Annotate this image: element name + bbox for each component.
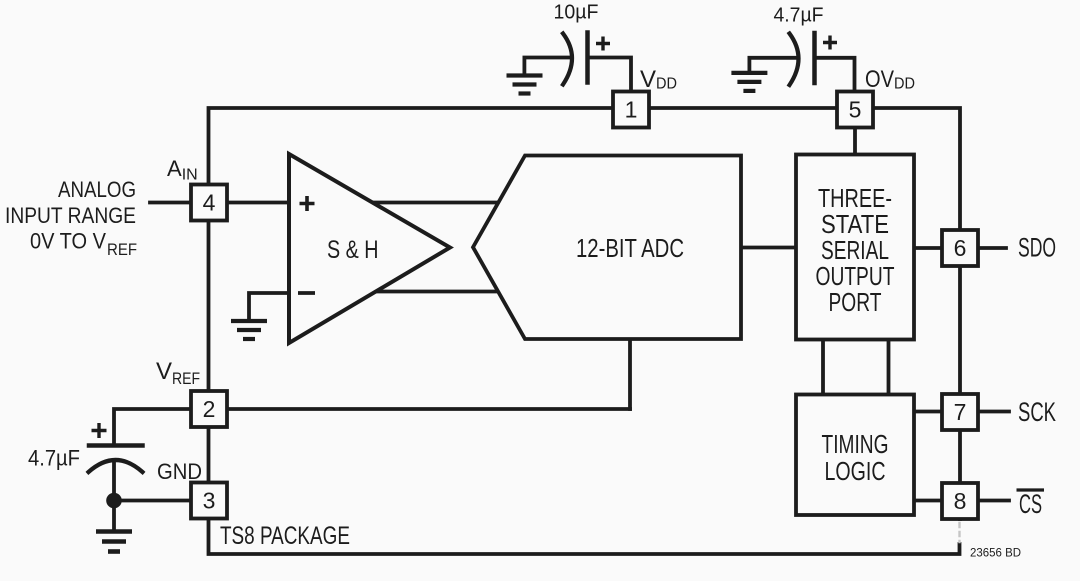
- svg-text:TS8 PACKAGE: TS8 PACKAGE: [220, 522, 350, 550]
- svg-text:SCK: SCK: [1018, 397, 1056, 427]
- pin 1 (VDD): [613, 92, 649, 128]
- svg-text:S & H: S & H: [327, 236, 379, 264]
- pin 5 (OVDD): [837, 92, 873, 128]
- block 12-BIT ADC: [473, 156, 741, 340]
- svg-text:OVDD: OVDD: [865, 66, 915, 93]
- svg-text:23656 BD: 23656 BD: [970, 546, 1021, 560]
- wire right rail (pin6 to pin7 to pin8): [958, 248, 962, 519]
- wire pin8 to CS: [978, 499, 1009, 503]
- capacitor C3 4.7uF curved plate: [89, 460, 143, 472]
- capacitor C2 4.7uF ground stub: [749, 58, 796, 70]
- wire S&H to ADC upper: [372, 201, 500, 205]
- wire C1 to pin1: [588, 58, 632, 92]
- label TIMING LOGIC: [822, 429, 889, 486]
- op-amp U1 S&H: [289, 154, 450, 343]
- wire three-state to pin6: [914, 246, 942, 250]
- plus sign C3: [92, 423, 107, 438]
- svg-text:5: 5: [849, 97, 862, 123]
- plus sign C2: [823, 36, 837, 50]
- wire pin8 to bottom rail (faded remnant): [958, 523, 960, 542]
- pin 2 (VREF): [191, 391, 227, 427]
- wire three-state to timing left: [821, 340, 825, 395]
- pin 7 (SCK): [942, 394, 978, 430]
- wire pin4 to S&H + input: [227, 201, 289, 205]
- wire analog input to pin4: [150, 201, 191, 205]
- svg-text:8: 8: [954, 488, 967, 514]
- wire C3 to junction: [112, 461, 116, 529]
- wire bottom rail (pin3 down, across, corner hook): [209, 502, 960, 554]
- svg-text:4: 4: [203, 190, 216, 216]
- label CS with overline: [1017, 489, 1045, 519]
- capacitor C1 10uF curved plate: [563, 34, 572, 85]
- svg-text:4.7µF: 4.7µF: [774, 5, 824, 27]
- ground GND3 (S&H - input): [231, 321, 267, 339]
- wire pin6 to SDO: [978, 246, 1006, 250]
- label THREE-STATE SERIAL OUTPUT PORT: [816, 183, 895, 317]
- svg-text:SDO: SDO: [1018, 233, 1056, 263]
- wire timing to pin8: [914, 499, 942, 503]
- pin 3 (GND): [191, 483, 227, 519]
- wire pin2 to C3: [114, 409, 191, 444]
- junction node (C3 / GND): [106, 493, 122, 509]
- svg-text:PORT: PORT: [829, 287, 882, 317]
- svg-text:6: 6: [954, 235, 967, 261]
- block timing logic: [796, 395, 914, 516]
- svg-text:12-BIT ADC: 12-BIT ADC: [576, 233, 684, 263]
- svg-text:AIN: AIN: [167, 156, 198, 184]
- svg-text:0V TO V: 0V TO V: [30, 229, 106, 254]
- wire pin2 VREF rail: [227, 407, 630, 411]
- svg-text:VDD: VDD: [640, 66, 677, 93]
- wire S&H - input to ground: [249, 293, 289, 318]
- capacitor C1 10uF straight plate: [585, 33, 590, 83]
- pin 4 (AIN): [191, 185, 227, 221]
- capacitor C2 4.7uF straight plate: [812, 33, 817, 83]
- label analog input range: [5, 177, 137, 259]
- svg-text:2: 2: [203, 396, 216, 422]
- pin 8 (CS): [942, 483, 978, 519]
- wire ADC output to three-state port: [741, 246, 796, 250]
- wire top bus (pin4 riser, VDD rail, right riser to pin6): [209, 108, 961, 248]
- svg-text:LOGIC: LOGIC: [825, 456, 886, 486]
- ground GND2 (C2): [731, 73, 767, 91]
- svg-text:GND: GND: [157, 459, 202, 484]
- wire timing to pin7: [914, 410, 942, 414]
- svg-text:TIMING: TIMING: [822, 429, 889, 459]
- svg-text:7: 7: [954, 399, 967, 425]
- svg-text:1: 1: [625, 97, 638, 123]
- svg-text:VREF: VREF: [156, 358, 200, 388]
- plus input marker: [300, 196, 315, 211]
- ground GND4 (C3 / GND pin): [96, 532, 132, 552]
- svg-text:INPUT RANGE: INPUT RANGE: [5, 203, 136, 228]
- wire ADC bottom to VREF rail: [628, 339, 632, 409]
- wire junction to pin3: [114, 499, 191, 503]
- wire three-state to timing right: [887, 340, 891, 395]
- block three-state serial output port: [796, 155, 914, 340]
- wire C2 to pin5: [815, 58, 855, 92]
- svg-text:REF: REF: [107, 240, 137, 259]
- ground GND1 (C1): [507, 76, 543, 94]
- capacitor C2 4.7uF curved plate: [790, 34, 799, 86]
- wire left rail (pin4 to pin2 to pin3): [207, 204, 211, 502]
- pin 6 (SDO): [942, 230, 978, 266]
- capacitor C3 4.7uF straight plate: [89, 443, 143, 448]
- wire pin7 to SCK: [978, 410, 1009, 414]
- plus sign C1: [596, 37, 610, 51]
- svg-text:3: 3: [203, 488, 216, 514]
- capacitor C1 10uF ground stub: [524, 58, 570, 74]
- svg-text:10µF: 10µF: [554, 2, 599, 24]
- svg-text:4.7µF: 4.7µF: [28, 446, 80, 471]
- minus input marker: [298, 291, 315, 295]
- wire S&H to ADC lower: [374, 290, 500, 294]
- svg-text:ANALOG: ANALOG: [58, 177, 136, 202]
- svg-text:CS: CS: [1019, 489, 1042, 519]
- wire pin5 to three-state port: [853, 127, 857, 155]
